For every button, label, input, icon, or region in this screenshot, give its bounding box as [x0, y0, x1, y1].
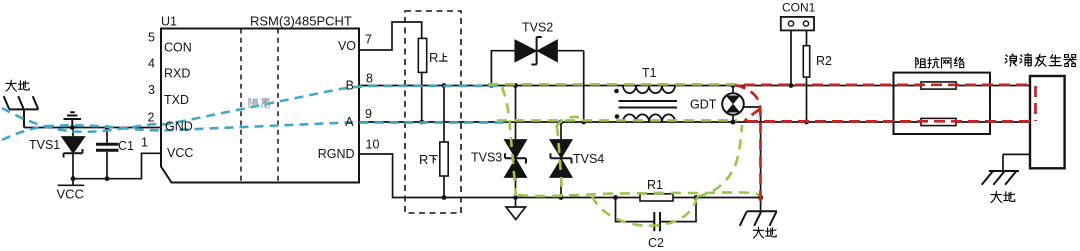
svg-text:2: 2 [148, 111, 155, 125]
wire RGND rail [359, 154, 762, 198]
red dashed trace along A [747, 120, 1031, 123]
svg-text:4: 4 [148, 57, 155, 71]
subscript xia of R_xia [429, 156, 437, 163]
ground triangle below TVS3 [506, 198, 526, 220]
connector CON1 [781, 17, 814, 86]
label zukang wangluo impedance network [916, 57, 964, 68]
green dashed through TVS4 body [557, 126, 562, 195]
ground (earth) at surge generator [982, 171, 1019, 185]
ground (earth) symbol far left [4, 96, 39, 127]
resistor impedance bottom [921, 118, 956, 125]
label geli isolation watermark [249, 98, 270, 108]
svg-text:A: A [345, 115, 354, 129]
wire R_xia to B [443, 86, 445, 143]
svg-text:GND: GND [165, 120, 193, 134]
svg-text:RXD: RXD [164, 67, 190, 81]
svg-text:1: 1 [141, 136, 148, 150]
svg-text:R2: R2 [816, 54, 832, 68]
svg-text:TVS3: TVS3 [471, 151, 502, 165]
green dashed down left of TVS3 to rail [502, 87, 516, 196]
resistor R2 [803, 46, 809, 77]
svg-text:R: R [419, 152, 428, 167]
isolation dashed lines inside U1 [241, 29, 278, 183]
green dashed dip through C2 [592, 196, 697, 226]
svg-text:C1: C1 [118, 139, 134, 153]
blue dashed trace to A [2, 123, 505, 140]
wire R_shang to A [421, 72, 423, 122]
wire VO pin7 [359, 22, 422, 50]
green dashed trace along B [488, 83, 741, 86]
svg-text:10: 10 [366, 138, 380, 152]
svg-text:5: 5 [148, 31, 155, 45]
svg-text:7: 7 [365, 33, 372, 47]
resistor R_xia [440, 142, 448, 176]
blue dashed trace to B [2, 86, 497, 132]
svg-text:R1: R1 [647, 178, 663, 192]
green dashed swoop to GDT [697, 125, 742, 197]
svg-text:8: 8 [366, 72, 373, 86]
label langyong fashengqi surge generator [1005, 54, 1076, 67]
wire GND rail left [24, 127, 161, 129]
svg-text:GDT: GDT [690, 98, 717, 112]
svg-text:VO: VO [338, 39, 356, 53]
wire VCC rail left [58, 153, 161, 185]
subscript shang of R_shang [439, 53, 447, 61]
wire line B [359, 85, 1031, 87]
red dashed hook GDT to A [745, 109, 761, 122]
red dashed trace along B [744, 83, 1031, 86]
wire R_xia bottom [443, 176, 445, 198]
red dashed GDT to earth [735, 85, 761, 207]
surge generator box [1030, 76, 1065, 168]
transformer T1 windings [619, 86, 678, 123]
TVS2 bidirectional [491, 37, 583, 122]
resistor R_shang [418, 38, 426, 72]
svg-text:RSM(3)485PCHT: RSM(3)485PCHT [250, 14, 352, 29]
label dadi far left [6, 80, 29, 91]
svg-text:RGND: RGND [318, 147, 355, 161]
svg-text:CON1: CON1 [782, 1, 816, 15]
signal ground above TVS1 [64, 112, 82, 127]
wire R2 to A [806, 77, 808, 122]
green dashed along RGND rail to earth [518, 192, 762, 196]
svg-text:T1: T1 [642, 66, 657, 80]
resistor impedance top [921, 82, 956, 89]
svg-text:C2: C2 [648, 236, 664, 250]
svg-text:3: 3 [148, 83, 155, 97]
green dashed curl at A junction [556, 117, 579, 127]
label dadi at surge ground [991, 191, 1015, 202]
svg-text:TVS4: TVS4 [573, 152, 604, 166]
wire surge generator to earth [1003, 154, 1031, 171]
label dadi at GDT ground [753, 227, 776, 238]
svg-text:TXD: TXD [164, 93, 189, 107]
svg-text:B: B [346, 79, 354, 93]
red dashed inside surge generator [1034, 86, 1037, 121]
wire line A [359, 121, 1031, 123]
dashed box around bias resistors [405, 11, 461, 213]
capacitor C2 with wires [616, 198, 697, 232]
svg-text:R: R [429, 50, 438, 65]
svg-text:TVS2: TVS2 [522, 21, 553, 35]
svg-text:VCC: VCC [167, 146, 193, 160]
impedance network box [894, 73, 991, 134]
resistor R1 [640, 194, 673, 201]
op-amp box U1 RSM(3)485PCHT [161, 29, 359, 183]
TVS3 bidirectional [505, 86, 526, 198]
svg-text:9: 9 [365, 107, 372, 121]
svg-text:VCC: VCC [57, 187, 84, 202]
svg-text:TVS1: TVS1 [29, 138, 60, 152]
svg-text:CON: CON [164, 41, 192, 55]
svg-text:U1: U1 [161, 15, 177, 29]
gas discharge tube GDT [722, 86, 760, 212]
TVS1 diode [62, 128, 84, 179]
green dashed trace along A [497, 119, 737, 122]
TVS4 bidirectional [551, 122, 572, 198]
capacitor C1 [96, 128, 119, 179]
ground (earth) at GDT [740, 211, 777, 226]
